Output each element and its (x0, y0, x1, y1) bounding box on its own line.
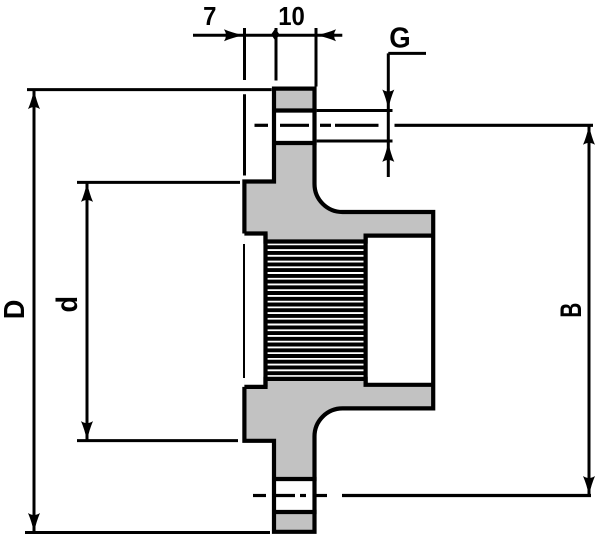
svg-text:d: d (51, 296, 85, 312)
svg-text:D: D (0, 300, 30, 319)
svg-text:B: B (555, 303, 587, 318)
svg-text:7: 7 (203, 2, 216, 31)
svg-text:G: G (389, 21, 410, 54)
svg-text:10: 10 (278, 2, 305, 31)
